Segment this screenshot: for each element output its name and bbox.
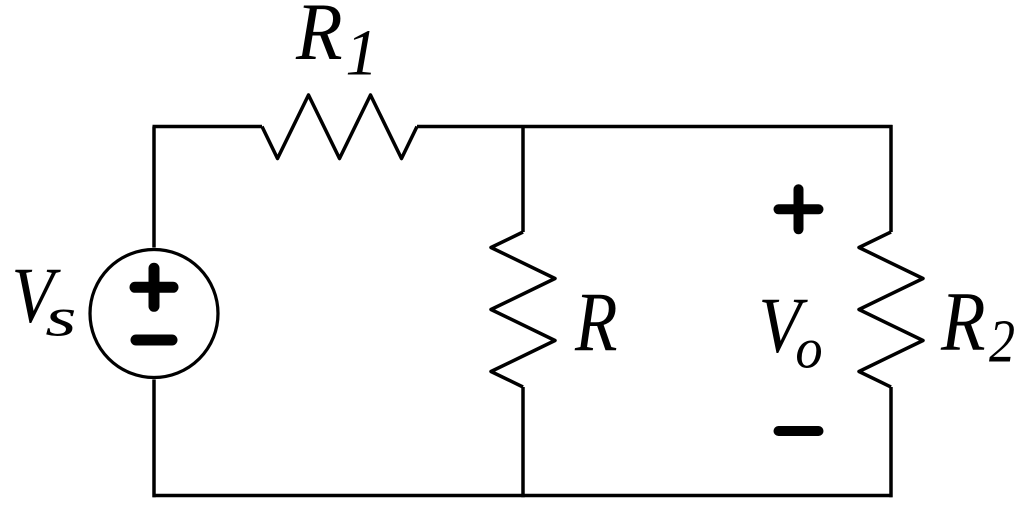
resistor R1	[262, 95, 417, 159]
voltage source Vs circle	[90, 250, 218, 378]
wire: top rail right segment	[417, 125, 893, 129]
wire: bottom-left vertical from source to bottom rail	[152, 380, 156, 498]
label R1	[295, 0, 378, 90]
polarity minus (Vo)	[779, 426, 819, 436]
svg-text:1: 1	[345, 18, 378, 90]
wire: right vertical upper	[889, 125, 893, 232]
wire: top rail left segment	[153, 125, 263, 129]
wire: right vertical lower	[889, 387, 893, 497]
resistor R2	[859, 232, 923, 387]
wire: bottom rail	[153, 494, 893, 498]
wire: top-left vertical from source to top rail	[152, 127, 156, 248]
source minus sign	[136, 335, 172, 346]
svg-text:R: R	[574, 275, 617, 369]
svg-text:R: R	[295, 0, 343, 77]
label Vs	[12, 253, 77, 347]
svg-text:o: o	[795, 317, 822, 381]
svg-text:s: s	[45, 286, 76, 348]
svg-text:2: 2	[989, 308, 1015, 376]
polarity plus (Vo)	[779, 189, 819, 229]
resistor R	[491, 232, 555, 387]
wire: middle vertical upper	[521, 125, 525, 232]
label R2	[940, 276, 1015, 376]
label Vo	[759, 283, 823, 381]
source plus sign	[135, 268, 173, 306]
svg-text:R: R	[940, 276, 985, 369]
wire: middle vertical lower	[521, 387, 525, 497]
